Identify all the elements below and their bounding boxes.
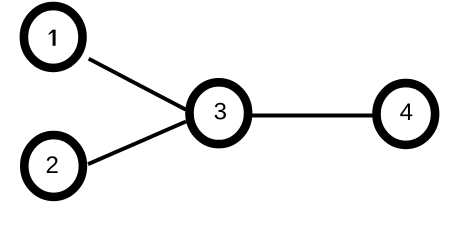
svg-text:4: 4: [400, 99, 413, 126]
wire edge 3-4: [250, 114, 374, 118]
svg-text:3: 3: [214, 99, 227, 126]
wire edge 1-3: [89, 59, 186, 110]
node 1: [24, 6, 83, 68]
wire edge 2-3: [88, 122, 186, 165]
node 4: [377, 83, 436, 145]
node 2: [24, 135, 83, 197]
node 3: [190, 82, 249, 144]
svg-text:2: 2: [46, 152, 59, 179]
